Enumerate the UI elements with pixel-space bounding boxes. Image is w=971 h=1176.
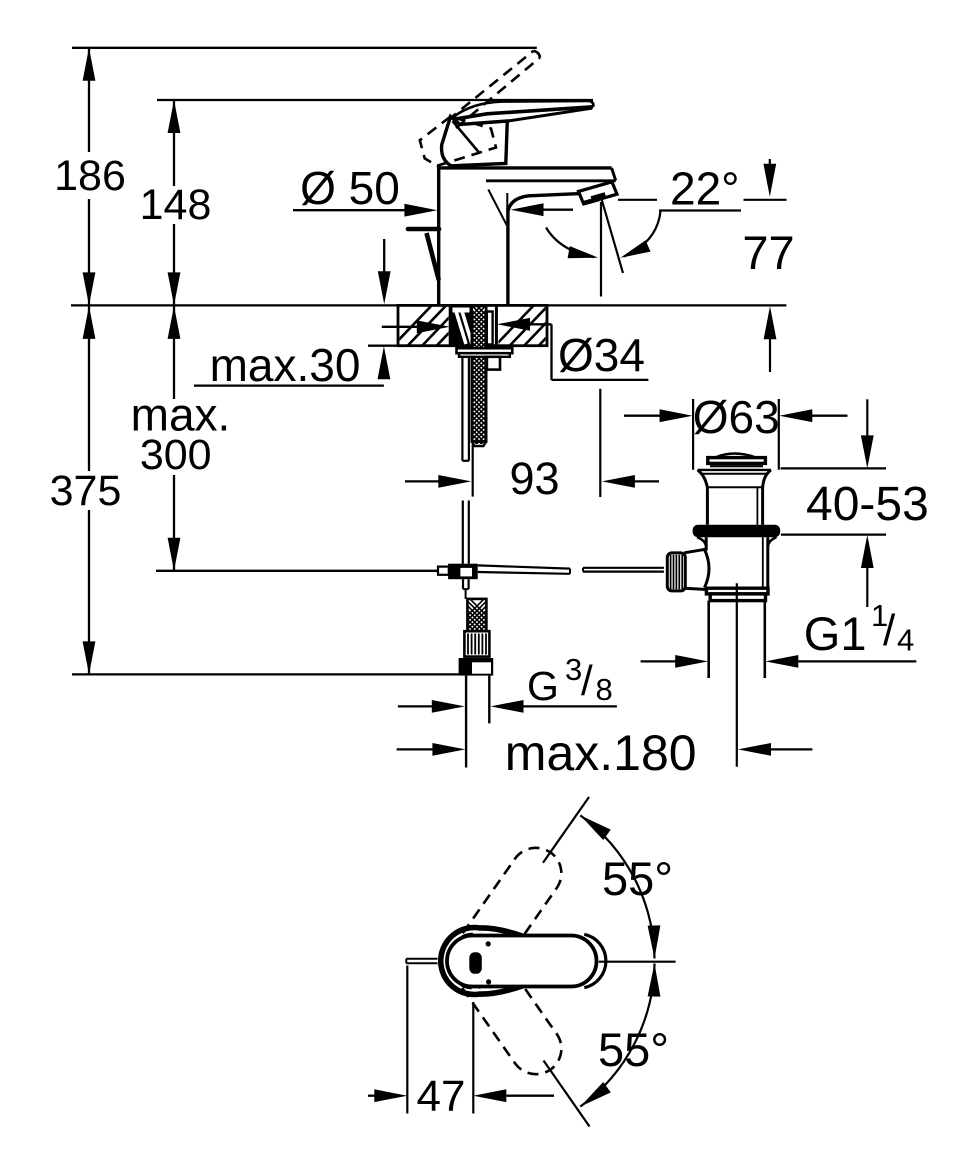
deck slab xyxy=(398,305,547,345)
pivot collar (thick outline) xyxy=(441,928,523,995)
thin slant line at spout root xyxy=(488,190,507,226)
22deg left arc with arrowhead at vertical line xyxy=(546,228,594,258)
drain upper cylinder xyxy=(707,487,762,525)
svg-text:/: / xyxy=(883,606,896,655)
svg-text:186: 186 xyxy=(54,152,126,200)
svg-text:8: 8 xyxy=(596,672,613,707)
nut tab xyxy=(487,357,500,370)
dimension max.180 xyxy=(397,725,813,781)
supply hose thin segment xyxy=(472,444,474,497)
svg-text:3: 3 xyxy=(565,652,582,687)
svg-text:375: 375 xyxy=(50,467,122,515)
svg-text:55°: 55° xyxy=(602,852,673,905)
extension line top of dashed lever (186 ref) xyxy=(72,47,537,49)
faucet body left edge xyxy=(437,166,440,304)
shank right guide piece xyxy=(487,312,493,345)
faucet body right edge xyxy=(506,208,509,305)
deck bottom extension line (max.30 ref) xyxy=(368,345,400,347)
svg-text:max.30: max.30 xyxy=(210,339,361,391)
dimension 186 (vertical) xyxy=(54,48,126,306)
faucet cap right slant edge xyxy=(612,168,616,181)
detail dot lower xyxy=(486,979,491,984)
drain plug cap xyxy=(708,458,766,464)
hose thin line above braid2 xyxy=(465,589,467,599)
T-junction coupler xyxy=(438,564,478,580)
braided supply hose (upper) xyxy=(471,300,487,454)
cap lip line xyxy=(710,465,763,467)
svg-text:55°: 55° xyxy=(598,1023,669,1076)
faucet cap top line xyxy=(437,166,612,169)
drain bottom ring 1 xyxy=(706,588,768,594)
pop-up rod (mid segment) xyxy=(463,501,469,564)
dimension 40-53 (basin thickness range) xyxy=(781,399,929,607)
svg-text:47: 47 xyxy=(417,1072,466,1121)
deck hatching left xyxy=(390,303,550,349)
set screw hole xyxy=(469,952,482,974)
upper 55deg arc with arrowheads xyxy=(580,815,660,958)
knurled adjusting knob xyxy=(667,553,685,591)
flange lip second line xyxy=(701,473,769,475)
washer under deck xyxy=(457,348,513,353)
svg-text:300: 300 xyxy=(140,431,212,479)
tailpipe xyxy=(709,601,765,678)
mounting hole edges xyxy=(449,306,452,346)
svg-text:148: 148 xyxy=(140,181,212,229)
svg-text:Ø63: Ø63 xyxy=(693,391,780,443)
dashed lever rotated down 55deg xyxy=(438,924,572,1084)
svg-text:22°: 22° xyxy=(670,163,740,215)
dimension 375 (vertical) xyxy=(50,306,122,675)
pop-up rod stub below T xyxy=(463,579,469,589)
funnel shoulder line xyxy=(707,486,762,488)
svg-text:max.180: max.180 xyxy=(505,725,697,781)
svg-text:/: / xyxy=(581,657,593,704)
dimension max.300 (vertical) xyxy=(131,306,231,571)
drain plug dome xyxy=(717,454,755,458)
lever handle (solid, rest position) xyxy=(442,101,594,166)
faucet cap bottom line xyxy=(486,179,616,182)
detail dot upper xyxy=(486,941,491,946)
dimension 77 (outlet height) xyxy=(742,159,794,372)
braided hose (lower segment) xyxy=(465,594,489,659)
crimp collar xyxy=(464,631,489,656)
svg-text:4: 4 xyxy=(897,623,914,658)
rubber seal O-ring xyxy=(693,525,781,537)
pop-up rod below deck (upper part) xyxy=(462,357,469,461)
flange underside line xyxy=(698,469,771,471)
mounting shank (left piece with wedge) xyxy=(451,307,472,346)
375 bottom reference line xyxy=(72,673,459,675)
svg-text:93: 93 xyxy=(509,453,559,504)
drain valve body xyxy=(697,537,777,588)
lever (plan view) xyxy=(447,936,597,987)
pop-up lift rod behind body xyxy=(408,229,439,280)
dimension 93 (spout projection) xyxy=(405,453,659,504)
lower 55deg slant line xyxy=(544,1061,590,1127)
svg-text:G: G xyxy=(527,663,559,709)
G3/8 connection nut xyxy=(459,658,494,676)
horizontal linkage rod (left segment) xyxy=(478,565,570,573)
centre line (plan) xyxy=(599,961,676,963)
left stub (rod end, plan) xyxy=(406,959,437,964)
drain bottom ring 2 xyxy=(710,594,765,601)
dimension G3/8 xyxy=(398,652,617,713)
svg-text:Ø 50: Ø 50 xyxy=(300,162,400,214)
outlet centre extension line below xyxy=(599,389,601,497)
dimension G1 1/4 (tailpipe thread) xyxy=(641,598,917,668)
lever handle raised position (dashed) xyxy=(420,51,540,166)
svg-text:40-53: 40-53 xyxy=(806,478,929,531)
dimension &#216;34 (hole diameter) xyxy=(382,318,649,497)
dimension 148 (vertical) xyxy=(140,100,212,306)
lower 55deg arc with arrowheads xyxy=(580,964,660,1107)
flange funnel sides xyxy=(698,470,708,487)
dimension &#216;63 xyxy=(624,391,848,443)
22deg right arc with arrowhead at slant line xyxy=(624,212,661,257)
dimension max.30 (deck thickness) xyxy=(194,239,391,391)
deck hatching right xyxy=(492,303,638,349)
extension line top of solid lever (148 ref) xyxy=(157,99,593,101)
supply pipe end xyxy=(466,676,489,768)
svg-text:G1: G1 xyxy=(804,607,867,660)
drain: &#216;63 extension lines xyxy=(692,399,694,470)
dimension 47 (plan offset) xyxy=(368,966,554,1122)
spout underside curve xyxy=(508,194,581,212)
tailpipe centre line xyxy=(736,583,738,767)
dimension 22 degrees (spout angle) xyxy=(546,163,787,297)
vertical line through aerator outlet xyxy=(600,202,602,297)
horizontal linkage rod (right segment) xyxy=(583,568,664,572)
dashed lever rotated up 55deg xyxy=(438,838,572,998)
side port outline xyxy=(684,549,707,589)
svg-text:Ø34: Ø34 xyxy=(558,329,645,381)
side port intersection arc xyxy=(705,550,710,588)
deck top reference line xyxy=(71,304,786,306)
dimension &#216;50 (body diameter) xyxy=(293,162,573,217)
mounting nut xyxy=(459,353,510,357)
aerator (outlet) xyxy=(579,182,618,204)
svg-text:77: 77 xyxy=(742,226,794,279)
max.300 bottom reference line (supply connection level) xyxy=(156,570,439,572)
slanted 22deg line xyxy=(602,200,623,273)
upper 55deg slant line xyxy=(543,797,589,863)
body cap arc (right) xyxy=(584,934,606,987)
